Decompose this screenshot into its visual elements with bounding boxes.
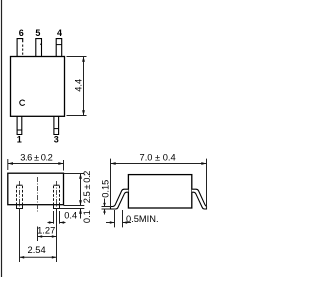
centerline pin1 xyxy=(19,181,21,209)
centerline middle xyxy=(37,177,39,213)
4.4 dimension arrows xyxy=(82,57,85,62)
pin 4 xyxy=(56,39,62,57)
index circle xyxy=(20,100,25,105)
0.1 dimension xyxy=(60,208,85,210)
svg-text:3: 3 xyxy=(54,135,59,145)
svg-text:4: 4 xyxy=(57,28,62,38)
top view body xyxy=(11,57,65,117)
left lead xyxy=(111,189,129,209)
pin 5 xyxy=(36,39,42,57)
svg-text:0.1: 0.1 xyxy=(82,210,92,223)
2.5 dimension xyxy=(64,174,85,206)
front view pin 3 xyxy=(54,185,60,208)
svg-text:0.4: 0.4 xyxy=(64,210,77,220)
4.4 dimension extension lines xyxy=(67,57,87,116)
front view pin 1 xyxy=(17,185,23,208)
svg-text:0.5MIN.: 0.5MIN. xyxy=(126,214,159,224)
pin 6 xyxy=(17,39,23,57)
svg-text:1: 1 xyxy=(17,135,22,145)
pin 3 xyxy=(54,116,59,134)
svg-text:2.54: 2.54 xyxy=(28,245,46,255)
pin 1 xyxy=(17,116,22,134)
extension line middle pitch xyxy=(37,227,39,242)
extension line pin1 pitch xyxy=(19,209,21,263)
svg-text:2.5 ± 0.2: 2.5 ± 0.2 xyxy=(82,171,92,203)
extension line pin3 pitch xyxy=(56,209,58,263)
0.4 dimension xyxy=(48,211,66,224)
svg-text:1.27: 1.27 xyxy=(37,225,55,235)
svg-text:6: 6 xyxy=(19,28,24,38)
left table border line xyxy=(1,0,3,277)
1.27 dimension xyxy=(38,236,57,238)
3.6 dimension xyxy=(8,159,64,171)
front view body xyxy=(8,173,64,205)
svg-text:5: 5 xyxy=(35,28,40,38)
svg-text:4.4: 4.4 xyxy=(74,79,84,92)
right lead xyxy=(192,189,207,209)
svg-text:7.0 ± 0.4: 7.0 ± 0.4 xyxy=(140,153,176,163)
2.54 dimension xyxy=(20,256,57,258)
0.5MIN dimension xyxy=(106,210,131,227)
svg-text:0.15: 0.15 xyxy=(101,180,111,198)
centerline pin3 xyxy=(56,181,58,209)
0.15 dimension xyxy=(102,199,111,215)
side view body xyxy=(128,175,191,208)
7.0 dimension xyxy=(111,159,207,209)
svg-text:3.6 ± 0.2: 3.6 ± 0.2 xyxy=(20,152,52,162)
